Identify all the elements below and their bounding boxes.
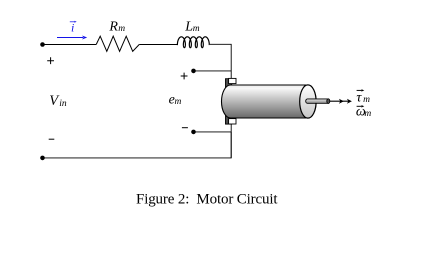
svg-text:m: m [363,95,370,105]
inductor L_m [177,37,210,48]
wire em- [194,131,232,133]
motor brush tab bottom [229,119,236,124]
plus sign Vin [47,57,54,64]
svg-text:in: in [59,99,67,109]
label omega_m (vector) [356,104,372,119]
node em- [191,130,196,135]
svg-text:m: m [118,24,125,34]
label R_m [108,19,125,34]
wire em+ [194,70,232,72]
current arrow i (blue) [57,36,87,40]
wire top-left to resistor [43,44,97,46]
label em [169,92,182,107]
motor body cylinder [222,85,317,118]
wire resistor to inductor [139,44,177,46]
svg-text:m: m [193,24,200,34]
minus sign Vin [49,138,55,140]
svg-text:m: m [175,97,182,107]
shaft [306,99,329,103]
node bottom-left [40,156,45,161]
node em+ [191,69,196,74]
svg-text:Figure 2: Motor Circuit: Figure 2: Motor Circuit [136,192,278,208]
minus sign em [182,127,188,129]
motor M1: bracket [226,79,232,124]
double arrow torque/speed [330,99,352,104]
label tau_m (vector) [356,89,370,105]
motor right end cap [300,85,316,118]
label Vin [49,93,67,109]
svg-text:i: i [71,21,74,35]
wire inductor to corner, down to motor [209,44,231,78]
wire motor bottom to bottom rail [230,124,232,158]
svg-text:m: m [364,109,371,119]
label L_m [184,19,200,34]
plus sign em [181,73,188,80]
label i (blue, vector) [70,21,77,35]
node A (top-left) [40,42,45,47]
shaft end cap [327,99,330,104]
svg-text:R: R [108,19,118,34]
bottom wire [43,132,232,158]
resistor R_m [96,36,139,51]
motor brush tab top [229,78,236,83]
